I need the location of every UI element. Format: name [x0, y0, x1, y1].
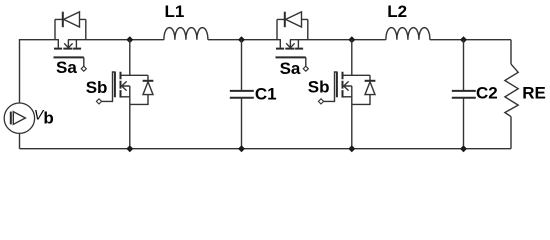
wire: left branch (Vb to top rail, rail to Sa1) [20, 40, 59, 103]
capacitor C2: plates [452, 91, 476, 98]
mosfet Sb2: channel contact bars [342, 72, 344, 98]
switch Sb1: top stub + diode branch [121, 75, 148, 80]
body diode of Sb1: triangle [143, 82, 153, 95]
wire: resistor to bottom rail [510, 117, 512, 149]
capacitor C2: top wire [463, 40, 465, 91]
wire: bottom rail [20, 148, 512, 150]
voltage source Vb: internal triangle [13, 112, 25, 125]
inductor L2 [386, 28, 430, 40]
mosfet Sa1: gate bar [54, 56, 84, 58]
mosfet Sb1: gate bar [114, 72, 116, 98]
diode of Sa1: triangle [64, 12, 80, 27]
mosfet Sb2: source wire to bottom rail [351, 86, 353, 149]
mosfet Sb1: body arrow [122, 81, 130, 90]
wire: top rail Sa1 drain to L1 [68, 39, 164, 41]
svg-text:RE: RE [522, 83, 546, 102]
mosfet Sb1: channel contact bars [120, 72, 122, 98]
mosfet Sb1: gate terminal diamond [96, 99, 101, 104]
switch Sa2: diode anode/cathode wires [277, 18, 308, 20]
diode of Sa2: cathode bar [284, 12, 286, 28]
mosfet Sb2: gate terminal diamond [318, 99, 323, 104]
switch Sa1: left riser to diode [54, 19, 56, 39]
node: bottom rail / Sb2 source [348, 145, 355, 152]
switch Sb1: drain wire from rail [129, 40, 131, 76]
svg-text:L2: L2 [387, 2, 407, 21]
switch Sa2: right riser from diode [307, 19, 309, 39]
wire: top rail L2 to load [430, 39, 511, 41]
capacitor C1: plates [230, 91, 254, 98]
mosfet Sa1: channel contact bars [54, 48, 81, 50]
mosfet Sa2: source stub [279, 40, 281, 48]
mosfet Sb1: gate terminal wire [102, 72, 115, 101]
svg-text:L1: L1 [165, 2, 185, 21]
body diode of Sb1: lower wire [130, 95, 148, 105]
mosfet Sa2: drain stub [297, 40, 299, 48]
svg-text:b: b [43, 109, 53, 128]
switch Sb2: top stub + diode branch [343, 75, 370, 80]
mosfet Sb2: body arrow [344, 81, 352, 90]
svg-text:C1: C1 [255, 84, 277, 103]
voltage source Vb: internal bar [10, 112, 12, 125]
node: top rail / Sb1 drain junction [126, 36, 133, 43]
node: bottom rail / Sb1 source [126, 145, 133, 152]
node: top rail / Sb2 drain junction [348, 36, 355, 43]
node: top rail / C1 junction [238, 36, 245, 43]
svg-text:Sa: Sa [56, 58, 77, 77]
switch Sa2: left riser to diode [276, 19, 278, 39]
mosfet Sa2: body arrow [286, 40, 294, 48]
switch Sb2: drain wire from rail [351, 40, 353, 76]
mosfet Sb2: gate terminal wire [324, 72, 337, 101]
switch Sa1: diode anode/cathode wires [55, 18, 86, 20]
body diode of Sb2: triangle [365, 82, 375, 95]
mosfet Sb2: gate bar [336, 72, 338, 98]
mosfet Sb2: source stub [343, 96, 352, 98]
mosfet Sa2: gate terminal wire [305, 57, 307, 66]
svg-text:Sb: Sb [308, 78, 330, 97]
diode of Sa1: cathode bar [62, 12, 64, 28]
inductor L1 [164, 28, 208, 40]
capacitor C2: bottom wire [463, 98, 465, 149]
wire: Vb to bottom rail [19, 133, 21, 148]
capacitor C1: bottom wire [241, 98, 243, 149]
mosfet Sb1: source stub [121, 96, 130, 98]
mosfet Sa1: drain stub [75, 40, 77, 48]
svg-text:Sb: Sb [86, 78, 108, 97]
body diode of Sb1: cathode bar [143, 80, 154, 82]
wire: right branch down to resistor [510, 40, 512, 64]
mosfet Sa1: gate terminal wire [83, 57, 85, 66]
mosfet Sa2: channel contact bars [276, 48, 303, 50]
node: bottom rail / C1 [238, 145, 245, 152]
wire: top rail Sa2 drain to L2 [290, 39, 386, 41]
mosfet Sa1: source stub [57, 40, 59, 48]
node: top rail / C2 junction [460, 36, 467, 43]
diode of Sa2: triangle [286, 12, 302, 27]
body diode of Sb2: lower wire [352, 95, 370, 105]
wire: top rail L1 to Sa2 [208, 39, 281, 41]
resistor RE [505, 64, 518, 117]
svg-text:C2: C2 [476, 84, 498, 103]
body diode of Sb2: cathode bar [365, 80, 376, 82]
mosfet Sa1: body arrow [64, 40, 72, 48]
svg-text:Sa: Sa [280, 59, 301, 78]
mosfet Sb1: source wire to bottom rail [129, 86, 131, 149]
mosfet Sa1: gate terminal diamond [81, 66, 86, 71]
node: bottom rail / C2 [460, 145, 467, 152]
switch Sa1: right riser from diode [85, 19, 87, 39]
mosfet Sa2: gate terminal diamond [303, 66, 308, 71]
voltage source Vb: circle [4, 103, 34, 133]
capacitor C1: top wire [241, 40, 243, 91]
mosfet Sa2: gate bar [276, 56, 306, 58]
